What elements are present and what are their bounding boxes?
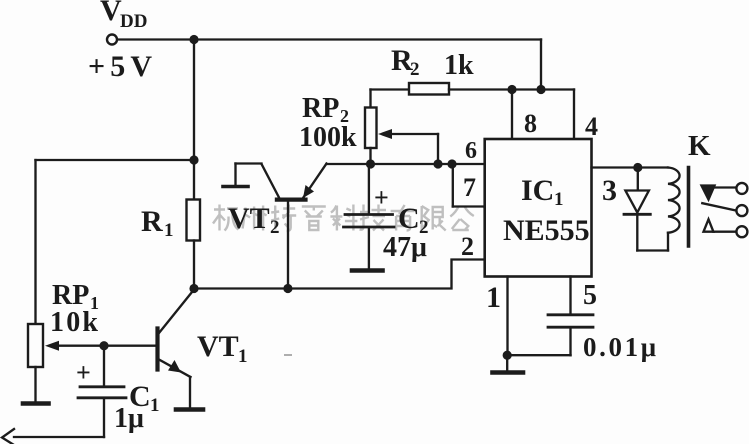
relay NO contact: [704, 219, 737, 231]
junction R1 bottom: [189, 284, 198, 293]
svg-text:2: 2: [461, 232, 474, 261]
potentiometer RP2: [365, 90, 377, 165]
input arrow: [2, 429, 14, 444]
relay core bar: [687, 168, 691, 247]
svg-text:+5V: +5V: [88, 50, 152, 83]
wire VT1 base: [104, 345, 156, 347]
junction RP2 wiper: [433, 159, 442, 168]
wire relay bottom: [637, 249, 668, 251]
potentiometer RP1: [28, 324, 43, 367]
wire column R1 upper: [193, 40, 195, 200]
svg-text:R: R: [141, 205, 163, 238]
svg-text:100k: 100k: [299, 122, 357, 153]
wire left branch horizontal: [36, 159, 195, 161]
junction pin7: [447, 159, 456, 168]
node VDD terminal: [107, 35, 117, 45]
svg-text:1: 1: [150, 395, 160, 416]
wire R1 bottom: [193, 241, 195, 289]
svg-text:5: 5: [583, 280, 597, 311]
rail to R2: [371, 88, 410, 90]
wire input bottom: [14, 436, 104, 438]
svg-text:10k: 10k: [50, 307, 98, 338]
relay contact circle bottom: [736, 226, 747, 237]
capacitor 0.01u: [507, 277, 593, 356]
svg-text:0.01μ: 0.01μ: [583, 332, 656, 362]
svg-text:1k: 1k: [444, 50, 474, 81]
watermark: [213, 205, 503, 232]
ground VT1: [176, 407, 203, 412]
svg-text:4: 4: [585, 112, 598, 141]
RP1 wiper arrow: [45, 341, 104, 351]
wire R2 right to pin4 corner: [449, 88, 574, 90]
resistor R1: [187, 200, 201, 241]
svg-text:2: 2: [410, 59, 420, 80]
svg-text:C: C: [398, 202, 420, 235]
relay coil K: [668, 168, 680, 251]
ground RP1: [23, 401, 49, 406]
resistor R2: [409, 83, 449, 95]
op-amp U1 IC box: [485, 139, 592, 277]
relay common arm: [702, 203, 736, 210]
svg-text:8: 8: [524, 109, 537, 138]
ground C2: [352, 268, 383, 273]
touch plate: [223, 185, 248, 189]
capacitor C2: [344, 164, 395, 269]
svg-text:6: 6: [465, 138, 477, 164]
transistor VT1: [158, 290, 195, 409]
transistor VT2: [236, 164, 327, 289]
svg-text:1: 1: [238, 346, 248, 367]
junction RP2 bottom: [366, 159, 375, 168]
RP2 wiper arrow: [378, 129, 438, 164]
wire pin 8: [511, 90, 513, 140]
junction VT2 base: [283, 284, 292, 293]
wire pin6 net: [327, 163, 485, 165]
wire discharge net (VT1 collector / pin 2): [194, 260, 485, 289]
pin 7 tab: [453, 164, 485, 207]
junction pin3: [633, 163, 642, 172]
wire top rail: [117, 38, 541, 40]
junction pin1 ground: [503, 351, 512, 360]
svg-text:V: V: [100, 0, 122, 27]
svg-text:7: 7: [463, 173, 476, 202]
wire pin 1: [506, 277, 508, 356]
svg-text:2: 2: [270, 217, 280, 238]
ground pin1: [493, 355, 524, 372]
svg-text:1: 1: [554, 189, 564, 210]
diode VD: [624, 168, 650, 251]
svg-text:DD: DD: [120, 11, 147, 32]
wire VDD drop to pin4 rail: [540, 40, 542, 90]
svg-text:+: +: [76, 358, 91, 387]
svg-text:+: +: [374, 183, 389, 212]
relay contact circle top: [736, 183, 747, 194]
svg-text:VT: VT: [197, 330, 239, 363]
wire left branch vertical to RP1: [34, 160, 36, 324]
svg-text:47μ: 47μ: [383, 232, 427, 263]
junction vdd-pin rail: [536, 85, 545, 94]
svg-text:K: K: [688, 130, 711, 162]
wire pin 4: [573, 90, 575, 140]
junction left branch: [189, 155, 198, 164]
svg-text:VT: VT: [228, 202, 270, 235]
svg-text:3: 3: [602, 174, 617, 207]
svg-text:RP: RP: [302, 93, 339, 124]
svg-text:1: 1: [486, 281, 501, 314]
svg-text:1: 1: [164, 220, 174, 241]
junction pin8: [507, 85, 516, 94]
wire RP1 bottom: [34, 367, 36, 402]
junction base node: [99, 341, 108, 350]
junction top rail: [189, 35, 198, 44]
artifact dash: [284, 354, 292, 356]
wire pin 3: [592, 166, 669, 168]
svg-text:1μ: 1μ: [114, 403, 144, 434]
relay moving contact top: [702, 186, 737, 200]
capacitor C1: [78, 346, 126, 437]
relay contact circle middle: [736, 205, 747, 216]
svg-text:IC: IC: [521, 174, 554, 207]
svg-text:NE555: NE555: [503, 214, 590, 247]
